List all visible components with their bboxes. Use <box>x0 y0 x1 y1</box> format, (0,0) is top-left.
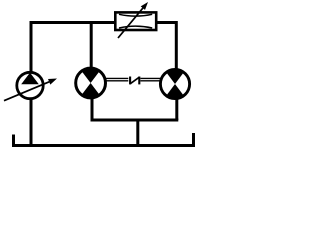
wire: pump bottom to tank line <box>30 99 33 146</box>
motor M1 top triangle <box>82 68 100 83</box>
wire: tap from top run down to motor M1 top <box>90 23 93 68</box>
motor M1 bottom triangle <box>82 83 100 98</box>
wire: motor M2 bottom drop <box>175 99 178 120</box>
pump P1 variability arrow <box>4 82 49 101</box>
valve V1 (adjustable throttle valve body) <box>115 2 156 38</box>
motor M1 (bidirectional hydraulic motor) <box>76 68 106 98</box>
shaft: double line from coupling to motor M2 <box>141 78 161 80</box>
wire: motor M1 bottom drop <box>91 98 94 120</box>
shaft: double line from motor M1 to coupling <box>106 78 129 80</box>
motor M2 bottom triangle <box>166 84 184 99</box>
wire: return line drop to tank <box>136 120 139 146</box>
motor M2 (bidirectional hydraulic motor) <box>160 69 189 98</box>
tank T1 (reservoir line with upturned ends) <box>14 133 194 146</box>
wire: valve output to motor M2 top (top right run + right vertical) <box>155 23 176 70</box>
motor M2 top triangle <box>166 69 184 84</box>
pump P1 flow triangle <box>21 73 39 85</box>
valve V1 adjustment arrow <box>118 8 143 38</box>
pump P1 (variable displacement pump) <box>4 72 57 100</box>
valve V1 upper restriction arc <box>119 14 152 16</box>
valve V1 lower restriction arc <box>119 26 152 28</box>
coupling K1 (shaft break / flexible coupling zigzag) <box>130 77 139 85</box>
wire: return line joining motor bottoms <box>91 119 179 122</box>
wire: pump top to valve (left vertical + top horizontal run) <box>31 23 116 73</box>
